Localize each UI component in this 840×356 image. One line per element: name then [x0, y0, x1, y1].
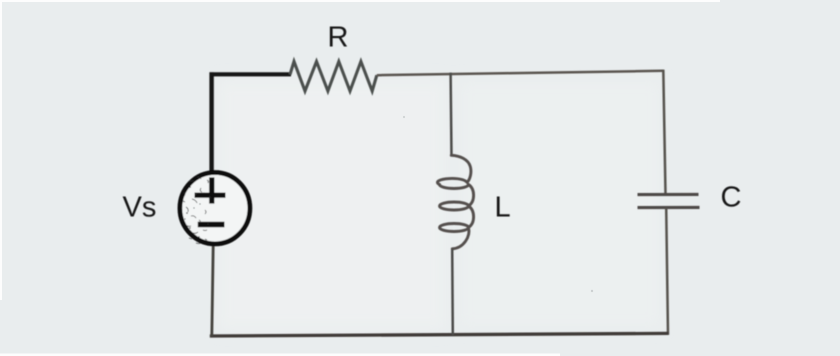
resistor R: [290, 62, 377, 92]
wire: middle vertical above inductor: [449, 73, 452, 157]
faint scan speck near top middle: [403, 116, 405, 118]
capacitor C top plate: [638, 193, 699, 196]
svg-text:R: R: [328, 22, 349, 54]
wire: bottom horizontal: [210, 333, 669, 336]
wire: top horizontal (resistor to top-right corner): [377, 71, 664, 75]
wire: left vertical below source: [212, 246, 213, 337]
inductor L coil: [437, 155, 473, 249]
wire: middle vertical below inductor: [451, 249, 454, 335]
capacitor C bottom plate: [638, 206, 700, 209]
svg-text:C: C: [721, 182, 742, 214]
faint scan speck near bottom right area: [591, 290, 593, 292]
wire: left vertical above source: [209, 72, 213, 171]
wire: right vertical above capacitor: [663, 70, 665, 194]
minus sign bar: [198, 222, 225, 228]
plus sign horizontal bar: [195, 193, 226, 198]
svg-text:L: L: [495, 191, 511, 223]
scan bloom: lighter interior of circuit loops: [218, 80, 661, 330]
voltage source circle right-edge emphasis: [233, 178, 250, 233]
wire: top-left horizontal (source top to resistor): [210, 72, 292, 76]
scan edge: white strip left: [0, 0, 2, 300]
wire: right vertical below capacitor: [666, 208, 668, 335]
svg-text:Vs: Vs: [123, 192, 157, 224]
voltage source Vs circle: [180, 173, 250, 244]
plus sign vertical bar: [209, 177, 214, 203]
scan edge: white strip bottom-left: [0, 354, 560, 356]
scan edge: white strip top: [0, 0, 720, 2]
speckle noise inside source circle: [183, 177, 211, 244]
